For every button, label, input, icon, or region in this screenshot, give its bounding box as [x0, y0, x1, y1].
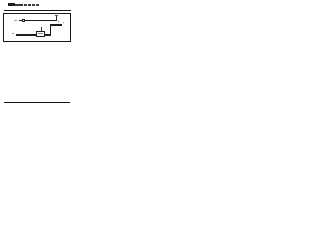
footer rule [4, 102, 70, 104]
pin label (faint dot right of stub) [58, 21, 59, 22]
wire (vertical riser) [50, 24, 51, 35]
value label inside U1 (faint) [38, 33, 43, 34]
wire (middle horizontal branch) [50, 24, 62, 25]
terminal bar (top of right stub) [55, 14, 58, 17]
reference numeral (faint dot near middle branch) [63, 22, 64, 23]
reference numeral (faint, lower-left lead) [12, 32, 14, 35]
wire (lower horizontal, right of component) [45, 34, 52, 35]
header text line [8, 3, 15, 6]
figure frame [3, 13, 71, 42]
wire (upper horizontal) [19, 20, 58, 21]
pin (top pin of component U1) [40, 27, 43, 31]
wire (lower horizontal, left of component) [16, 34, 37, 35]
reference numeral (faint, upper-left lead) [14, 19, 17, 22]
component S1 (small box on upper wire) [22, 19, 25, 22]
wire (vertical stub at right end of upper wire) [56, 16, 57, 22]
component U1 (rectangular device) [36, 31, 44, 38]
header rule [4, 10, 71, 11]
